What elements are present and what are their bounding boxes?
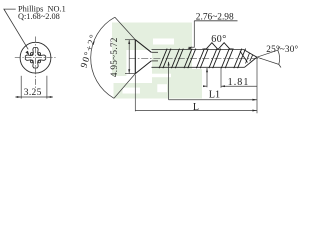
svg-text:90°+2°: 90°+2° — [79, 32, 100, 69]
leader stub below thread — [206, 68, 208, 87]
dim L dimension line — [135, 110, 257, 112]
svg-text:25°~30°: 25°~30° — [266, 44, 298, 54]
dim 2.76~2.98 leader — [188, 21, 194, 48]
dim 1.81 dimension line — [221, 85, 257, 87]
head circle (top view) — [20, 42, 51, 73]
angle 25-30 upper line — [257, 50, 278, 57]
dim 4.95~5.72 extension lines — [125, 39, 135, 41]
svg-text:2.76~2.98: 2.76~2.98 — [196, 13, 234, 23]
centerline vertical — [35, 37, 37, 89]
head cone top edge — [135, 40, 151, 53]
svg-text:Q:1.68~2.08: Q:1.68~2.08 — [18, 12, 60, 21]
angle 25-30 arc — [278, 50, 280, 64]
angle 90 arc — [91, 17, 115, 98]
head flat face — [134, 40, 136, 74]
dim L1 dimension line — [169, 99, 257, 101]
dim L extension line left — [134, 75, 136, 112]
leader line to recess — [4, 9, 28, 49]
thread crest top line — [152, 49, 244, 51]
shank root stubs — [151, 51, 158, 53]
dim L1 extension line with arrow to thread — [168, 62, 170, 100]
angle 25-30 end hooks — [278, 47, 281, 68]
peak side ticks — [202, 48, 233, 50]
thread crest bottom line — [152, 66, 245, 68]
dim 4.95~5.72 dimension line — [128, 40, 130, 74]
svg-text:3.25: 3.25 — [24, 88, 42, 98]
thread profile peaks — [206, 43, 230, 50]
screw point bottom edge — [245, 57, 257, 67]
angle 90 extension line lower — [114, 74, 135, 99]
screw point top edge — [244, 50, 257, 58]
svg-text:4.95~5.72: 4.95~5.72 — [109, 37, 119, 77]
thread flank lines — [159, 49, 246, 69]
svg-text:L: L — [193, 102, 199, 113]
svg-text:L1: L1 — [209, 89, 220, 100]
centerline horizontal — [15, 57, 56, 59]
screw axis centerline — [129, 57, 263, 59]
phillips recess outline — [25, 48, 45, 68]
leader arrowhead — [25, 51, 29, 55]
dim 2.76~2.98 dimension line — [194, 20, 237, 22]
head cone bottom edge — [135, 61, 151, 74]
angle 25-30 lower line — [257, 57, 279, 64]
svg-text:1.81: 1.81 — [228, 77, 250, 88]
dimension 3.25 extension lines — [15, 76, 53, 99]
watermark green block A — [112, 23, 202, 99]
dim L extension line right at tip — [256, 58, 258, 113]
dimension 3.25 arrows — [17, 96, 52, 98]
angle 90 extension line upper — [115, 17, 135, 40]
dim 1.81 extension line left — [220, 68, 222, 88]
point thread lines — [240, 51, 253, 64]
